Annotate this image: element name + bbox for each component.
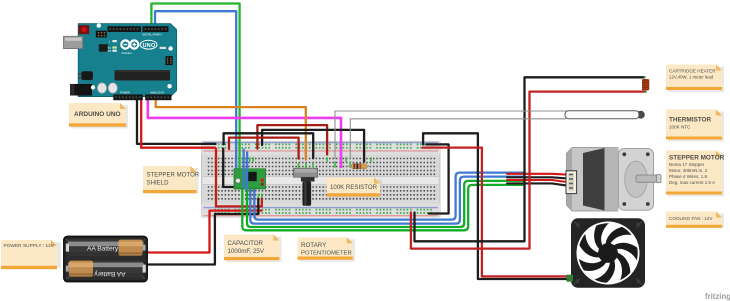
label POWER SUPPLY 12V [1, 240, 61, 269]
wire red heater to bottom rail [411, 92, 645, 249]
stepper motor M1 [566, 148, 661, 212]
svg-text:100K RESISTOR: 100K RESISTOR [330, 184, 378, 191]
wire orange Arduino A0 to pot wiper [156, 97, 306, 160]
analog header bottom [145, 94, 171, 100]
arduino infinity logo [121, 40, 129, 48]
label STEPPER MOTOR SHIELD [143, 166, 200, 194]
wire black battery minus to bottom rail bus [146, 199, 259, 265]
svg-text:ROTARY: ROTARY [301, 242, 326, 249]
green connected-hole highlights [236, 157, 371, 199]
battery pack BT1 [64, 236, 148, 282]
svg-text:RX: RX [108, 49, 112, 53]
usb connector [64, 36, 83, 48]
wire blue jumper rail to driver sleep [242, 149, 244, 189]
svg-text:AA Battery: AA Battery [87, 246, 119, 253]
svg-text:fritzing: fritzing [705, 292, 730, 301]
label ARDUINO UNO [69, 103, 128, 129]
AA cell bottom (flipped) [68, 261, 144, 277]
label CAPACITOR 1000mF 25V [224, 235, 282, 263]
icsp header right [166, 56, 173, 65]
arduino LEDs TX RX L [112, 40, 116, 42]
svg-text:POWER: POWER [120, 91, 130, 95]
svg-text:ARDUINO UNO: ARDUINO UNO [74, 111, 121, 118]
breadboard [202, 141, 441, 217]
label STEPPER MOTOR [666, 151, 725, 197]
wire black rail to pot pin3 hoop K2 [224, 133, 314, 158]
wire red top rail down to driver VMOT [216, 149, 262, 207]
digital header right [143, 26, 169, 32]
label CARTRIDGE HEATER [666, 65, 724, 93]
wire black fan minus to top rail [423, 133, 571, 279]
svg-text:COOLING FAN : 12V: COOLING FAN : 12V [669, 216, 713, 221]
motor connector [566, 171, 577, 194]
wire motor lead red A+ [507, 173, 567, 176]
labels layer [1, 65, 725, 270]
wire black rail to resistor row hoop K1 [262, 130, 364, 162]
wire motor lead red B+ [507, 180, 567, 182]
wire red battery plus to bottom rail bus [146, 211, 262, 253]
wire green Arduino D3 to driver STEP [151, 4, 239, 170]
svg-text:ANALOG IN: ANALOG IN [150, 91, 164, 95]
label COOLING FAN 12V [666, 212, 724, 229]
AA cell top [68, 240, 144, 256]
label THERMISTOR [666, 110, 724, 142]
wire dark red rail to pot row hoop R1 [257, 125, 327, 154]
label 100K RESISTOR [327, 178, 383, 199]
thermistor lead 2 [350, 119, 566, 159]
power header bottom [113, 94, 143, 100]
wire green driver 1B to motor lead 4 [242, 185, 523, 230]
svg-text:1000mF, 25V: 1000mF, 25V [228, 248, 265, 255]
label ROTARY POTENTIOMETER [298, 237, 356, 262]
wire blue driver 2B to motor lead 1 [254, 173, 523, 220]
svg-text:STEPPER MOTOR: STEPPER MOTOR [147, 172, 200, 179]
svg-text:STEPPER MOTOR: STEPPER MOTOR [669, 155, 725, 162]
mounting holes [97, 23, 101, 27]
stepper driver A4988 U2 [234, 169, 266, 189]
svg-text:CAPACITOR: CAPACITOR [228, 240, 264, 247]
wire green driver 1A to motor lead 3 [247, 181, 524, 227]
power jack [70, 84, 92, 95]
svg-text:Nema 17 Stepper: Nema 17 Stepper [669, 162, 705, 167]
arduino U1 [64, 23, 177, 100]
wire black top rail down to driver GND left [223, 149, 234, 187]
digital header left [108, 26, 142, 32]
icsp header top-left [96, 31, 107, 38]
svg-text:POWER SUPPLY : 12V: POWER SUPPLY : 12V [4, 243, 55, 249]
uno oval logo [140, 40, 157, 49]
svg-text:100K NTC: 100K NTC [669, 125, 691, 130]
wire dark red rail to pot pin1 hoop R2 [229, 138, 299, 159]
atmega328 chip [115, 70, 171, 81]
cooling fan F1 [567, 218, 646, 287]
rotary potentiometer RV1 [294, 163, 318, 206]
svg-text:12V,40W, 1 meter lead: 12V,40W, 1 meter lead [669, 75, 714, 80]
wire red fan plus to top rail [423, 148, 572, 277]
wire blue jumper rail to driver reset [246, 152, 248, 190]
svg-text:AA Battery: AA Battery [94, 270, 126, 277]
wire black Arduino GND to top rail [137, 97, 216, 144]
wire red Arduino 5V to top rail [141, 97, 215, 148]
voltage regulator [99, 44, 108, 52]
wire black top rail to bottom rail around board edge [426, 144, 448, 213]
svg-text:Motor, 400mN.m, 2: Motor, 400mN.m, 2 [669, 168, 708, 173]
svg-text:DIGITAL (PWM~): DIGITAL (PWM~) [142, 33, 162, 37]
capacitor C2 [108, 83, 117, 93]
arduino board body [78, 24, 176, 97]
crystal Y1 [81, 71, 93, 80]
wire magenta Arduino A1 to breadboard [148, 97, 341, 167]
svg-text:Phase 4 Wires, 1.8: Phase 4 Wires, 1.8 [669, 174, 708, 179]
cartridge heater HE1 coil [642, 76, 649, 92]
svg-text:SHIELD: SHIELD [147, 180, 170, 187]
thermistor lead 1 [335, 111, 566, 159]
reset button [79, 25, 90, 34]
svg-text:UNO: UNO [143, 43, 156, 49]
svg-text:POTENTIOMETER: POTENTIOMETER [301, 251, 352, 257]
thermistor TH1 rod [565, 111, 645, 119]
svg-text:CARTRIDGE HEATER: CARTRIDGE HEATER [669, 69, 716, 74]
svg-text:THERMISTOR: THERMISTOR [669, 117, 712, 124]
svg-text:Arduino: Arduino [122, 51, 133, 55]
wire blue driver 2A to motor lead 2 [250, 177, 523, 224]
svg-text:Deg, max current 1.5 A: Deg, max current 1.5 A [669, 180, 715, 185]
wire black heater to bottom rail [415, 77, 645, 241]
wire motor lead black B- [507, 183, 567, 185]
resistor R1 100K [346, 164, 372, 169]
wire blue Arduino D2 to driver DIR [155, 11, 236, 169]
capacitor C1 [97, 83, 106, 93]
wire motor lead black A- [507, 177, 567, 178]
